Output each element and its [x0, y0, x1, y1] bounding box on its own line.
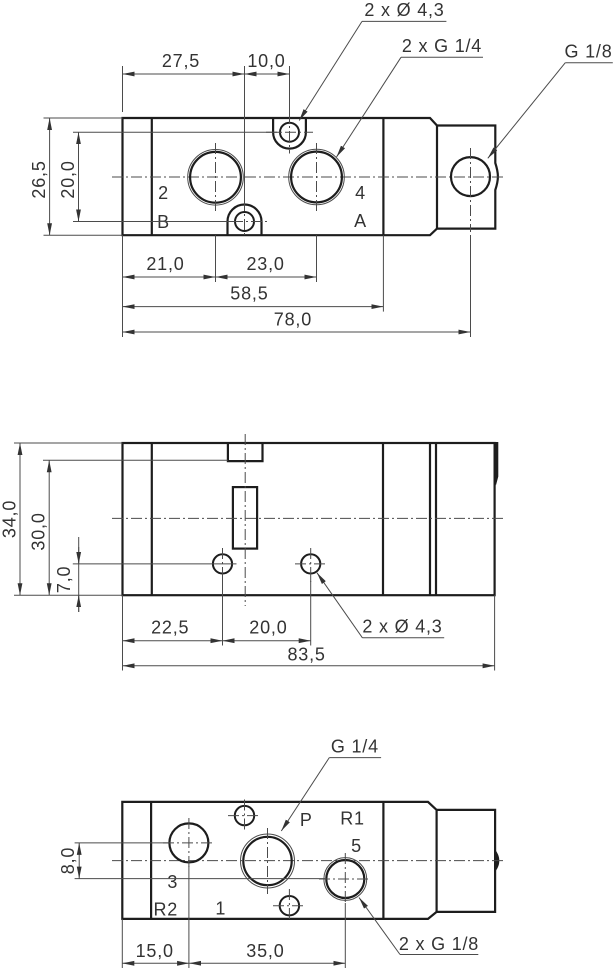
mounting hole bottom centerlines: [288, 889, 290, 922]
dimension 23,0 extension line: [316, 235, 318, 282]
leader 2 x diam 4,3 (side): [317, 573, 362, 638]
dimension 30,0: [48, 460, 50, 595]
svg-text:4: 4: [355, 183, 366, 203]
bottom view: left step edge: [150, 802, 152, 919]
svg-text:83,5: 83,5: [287, 645, 325, 665]
svg-text:2 x Ø 4,3: 2 x Ø 4,3: [362, 617, 442, 637]
side view: edge line b: [382, 443, 384, 595]
side view: slot: [233, 487, 257, 548]
leader G 1/4 (bottom): [281, 758, 329, 831]
svg-text:G 1/8: G 1/8: [564, 42, 612, 62]
port P (G 1/4), thread circle: [241, 834, 295, 888]
dimension 35,0 extension line: [344, 903, 346, 968]
svg-text:21,0: 21,0: [146, 254, 184, 274]
mounting hole bottom (4,3): [280, 896, 299, 915]
svg-text:8,0: 8,0: [58, 847, 78, 874]
dimension 30,0 extension line: [43, 459, 228, 461]
mounting hole bottom centerlines: [244, 200, 246, 238]
dimension 26,5 extension lines: [44, 117, 123, 119]
dimension 22,5: [123, 640, 223, 642]
side view: edge line a: [151, 443, 153, 595]
port hole 2 (G 1/4), thread circle: [188, 150, 244, 206]
top view: body outline: [123, 118, 498, 235]
dimension 22,5 extension lines: [122, 595, 124, 670]
svg-text:3: 3: [167, 872, 178, 892]
dimension 78,0 extension line: [470, 235, 472, 337]
svg-text:P: P: [300, 810, 313, 830]
svg-text:10,0: 10,0: [247, 51, 285, 71]
dimension 23,0: [216, 276, 317, 278]
side hole right centerlines: [310, 548, 312, 582]
side view: body outline: [123, 443, 495, 595]
svg-text:35,0: 35,0: [246, 941, 284, 961]
top view: boss joint edge: [436, 126, 438, 229]
dimension 83,5 extension line: [494, 595, 496, 670]
svg-text:78,0: 78,0: [274, 310, 312, 330]
mounting hole top centerlines: [289, 112, 291, 154]
dimension 20,0: [223, 640, 311, 642]
svg-text:5: 5: [351, 836, 362, 856]
dimension 7,0 extension line: [73, 563, 237, 565]
bottom view: boss joint edge: [436, 810, 438, 912]
mounting hole top (4,3), ear outline: [273, 118, 306, 149]
port 5 (G 1/8): [326, 860, 364, 898]
side hole left centerlines: [222, 548, 224, 582]
mounting hole top (4,3): [280, 123, 299, 142]
dimension 58,5 extension line: [382, 235, 384, 311]
svg-text:7,0: 7,0: [54, 566, 74, 593]
side view: main centerline: [112, 517, 505, 519]
bottom view: end port bump: [495, 849, 500, 872]
svg-text:R2: R2: [153, 900, 178, 920]
dimension 10,0: [245, 73, 290, 75]
mounting hole top centerlines: [244, 800, 246, 833]
dimension 21,0 extension lines: [122, 235, 124, 337]
dimension 83,5: [123, 665, 495, 667]
svg-text:27,5: 27,5: [162, 51, 200, 71]
dimension 27,5: [123, 73, 245, 75]
svg-text:2 x G 1/8: 2 x G 1/8: [399, 934, 479, 954]
top view: left step edge: [151, 118, 153, 235]
dimension 7,0: [78, 537, 80, 612]
port 3 centerlines: [188, 818, 190, 868]
dimension 20,0 extension lines: [73, 131, 281, 133]
dimension 8,0: [78, 843, 80, 879]
pilot hole G 1/8: [451, 157, 490, 196]
mounting hole bottom (4,3): [235, 212, 254, 231]
mounting hole top (4,3): [235, 806, 254, 825]
port hole 4 (G 1/4), thread circle: [289, 149, 345, 205]
mounting hole bottom (4,3), ear outline: [228, 205, 262, 236]
dimension 34,0: [19, 443, 21, 595]
top view: main centerline: [112, 176, 506, 178]
port P vertical centerline: [267, 828, 269, 894]
port hole 2 (G 1/4): [190, 152, 241, 203]
bottom view: body outline: [122, 802, 495, 919]
top view: right section edge: [382, 118, 384, 235]
port P (G 1/4): [243, 837, 291, 885]
port 5 centerlines: [344, 853, 346, 905]
svg-text:A: A: [354, 211, 367, 231]
svg-text:34,0: 34,0: [0, 500, 20, 538]
svg-text:58,5: 58,5: [230, 284, 268, 304]
dimension 58,5: [123, 306, 384, 308]
svg-text:2: 2: [158, 183, 169, 203]
svg-text:20,0: 20,0: [249, 618, 287, 638]
side hole left (4,3): [213, 554, 232, 573]
port 3 (G 1/8): [169, 823, 208, 862]
side view: top right chamfer wedge: [494, 442, 499, 486]
svg-text:20,0: 20,0: [58, 160, 78, 198]
dimension 35,0: [189, 962, 345, 964]
side view: slot vertical centerline: [244, 434, 246, 606]
bottom view: right section edge: [382, 802, 384, 919]
svg-text:G 1/4: G 1/4: [331, 737, 379, 757]
dimension 26,5: [49, 118, 51, 235]
side view: top notch: [228, 443, 263, 461]
svg-text:1: 1: [215, 899, 226, 919]
dimension 27,5 extension lines: [122, 66, 124, 112]
dimension 78,0: [123, 331, 471, 333]
dimension 34,0 extension lines: [14, 442, 123, 444]
svg-text:15,0: 15,0: [136, 941, 174, 961]
port hole 4 (G 1/4): [291, 152, 342, 203]
port 5 (G 1/8), thread circle: [324, 858, 367, 901]
side view: edge line c: [429, 443, 431, 595]
bottom view: main centerline: [112, 860, 506, 862]
leader G 1/8: [488, 63, 566, 159]
leader 2 x G 1/8 (bottom): [359, 898, 400, 955]
dimension 15,0 extension lines: [121, 919, 123, 968]
side hole right (4,3): [301, 554, 320, 573]
dimension 20,0: [78, 132, 80, 221]
dimension 15,0: [122, 962, 189, 964]
dimension 20,0 extension line: [310, 578, 312, 646]
pilot hole vertical centerline: [470, 148, 472, 232]
port 4 vertical centerline: [316, 143, 318, 212]
svg-text:R1: R1: [340, 809, 365, 829]
leader 2 x diam 4,3: [299, 21, 362, 120]
svg-text:2 x Ø 4,3: 2 x Ø 4,3: [364, 0, 444, 20]
dimension 21,0: [123, 276, 216, 278]
leader 2 x G 1/4: [337, 57, 402, 157]
svg-text:22,5: 22,5: [151, 618, 189, 638]
svg-text:2 x G 1/4: 2 x G 1/4: [402, 36, 482, 56]
svg-text:30,0: 30,0: [29, 512, 49, 550]
dimension 8,0 extension lines: [75, 842, 170, 844]
side view: edge line d: [435, 443, 437, 595]
svg-text:23,0: 23,0: [246, 254, 284, 274]
port 2 vertical centerline: [215, 143, 217, 212]
svg-text:26,5: 26,5: [29, 160, 49, 198]
